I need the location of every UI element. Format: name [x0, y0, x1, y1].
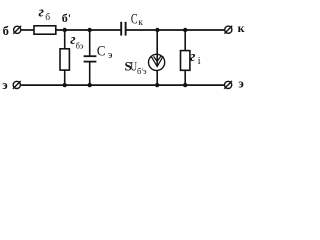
node source top: [155, 28, 159, 32]
node source bottom: [155, 83, 159, 87]
current source SUб'э: [149, 54, 165, 70]
svg-text:C: C: [97, 44, 106, 60]
node б': [62, 28, 66, 32]
svg-text:э: э: [238, 77, 243, 91]
terminal б: [13, 26, 21, 34]
svg-text:к: к: [138, 18, 143, 28]
svg-text:к: к: [238, 21, 245, 35]
resistor gi: [181, 51, 190, 71]
svg-text:б: б: [3, 24, 9, 38]
wire Cэ bottom stub: [89, 62, 91, 86]
wire rб to Cк: [56, 29, 121, 31]
wire б to rб: [21, 29, 34, 31]
terminal к: [224, 26, 232, 34]
svg-text:г: г: [190, 49, 196, 65]
svg-text:бэ: бэ: [76, 41, 84, 51]
wire gi bottom stub: [184, 70, 186, 85]
svg-text:э: э: [2, 78, 7, 92]
svg-text:г: г: [39, 4, 45, 20]
resistor rб: [34, 26, 56, 34]
wire б' down: [64, 30, 66, 49]
capacitor Cэ: [84, 56, 97, 61]
node Cэ top: [88, 28, 92, 32]
svg-text:i: i: [198, 56, 201, 67]
svg-text:э: э: [108, 49, 113, 61]
resistor rб'э: [60, 49, 69, 70]
terminal э left: [13, 81, 21, 89]
wire rб'э bottom: [64, 70, 66, 85]
wire Cэ top stub: [89, 30, 91, 56]
wire gi top stub: [184, 30, 186, 51]
capacitor Cк: [121, 22, 125, 36]
node gi top: [183, 28, 187, 32]
svg-text:C: C: [131, 12, 138, 28]
svg-text:б': б': [62, 11, 71, 25]
wire source top stub: [156, 30, 158, 66]
wire Cк to к: [126, 29, 225, 31]
svg-text:б'э: б'э: [137, 66, 147, 76]
bottom rail э-э: [20, 84, 225, 86]
node Cэ bottom: [88, 83, 92, 87]
svg-text:б: б: [45, 12, 50, 23]
node rб'э bottom: [62, 83, 66, 87]
terminal э right: [224, 81, 232, 89]
wire source bottom stub: [156, 70, 158, 85]
node gi bottom: [183, 83, 187, 87]
